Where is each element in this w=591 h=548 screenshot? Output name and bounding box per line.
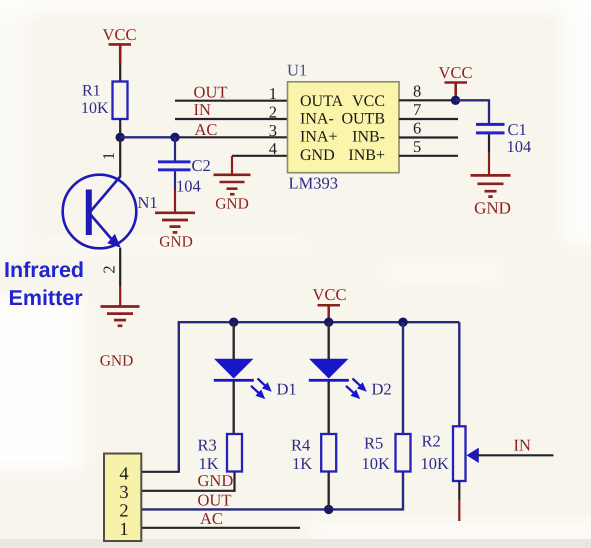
pin number 7 of U1	[413, 100, 421, 119]
power flag VCC net label (bottom)	[313, 285, 347, 304]
potentiometer R2 wiper arrow	[467, 448, 479, 463]
svg-text:GND: GND	[100, 353, 134, 370]
wire IN net to U1 pin 2	[175, 118, 288, 120]
svg-text:R3: R3	[198, 435, 217, 454]
svg-text:7: 7	[413, 100, 421, 119]
ground symbol below C1	[471, 175, 511, 196]
wire R3 bottom to connector pin 3	[141, 472, 235, 491]
wire AC net from C2 node to U1 pin 3	[175, 136, 288, 138]
junction node at C2	[170, 133, 179, 142]
connector pin number 1	[119, 520, 128, 540]
wire AC net from node to C2 node	[120, 136, 175, 138]
wire bus to R5 top	[402, 322, 404, 434]
svg-text:OUTA: OUTA	[300, 93, 344, 110]
power flag VCC bar symbol (right of U1)	[445, 83, 468, 101]
pin number 1 of U1	[269, 84, 277, 103]
label R5	[364, 433, 383, 452]
junction node bus at D1	[229, 318, 238, 327]
svg-text:AC: AC	[195, 120, 218, 139]
svg-text:6: 6	[413, 118, 421, 137]
svg-text:OUT: OUT	[198, 491, 232, 510]
label GND (lower left)	[100, 353, 134, 370]
pin name GND	[300, 147, 335, 164]
svg-text:GND: GND	[300, 147, 335, 164]
pin number 5 of U1	[413, 137, 421, 156]
wire OUT net: connector pin 2 to R4 and R5 bottom	[141, 472, 403, 510]
svg-text:Infrared: Infrared	[4, 258, 84, 282]
wire R1 bottom to node	[119, 119, 121, 137]
junction node at R1 / transistor / AC line	[116, 133, 125, 142]
LED D2 emission arrows	[343, 375, 369, 402]
resistor R3	[227, 434, 242, 472]
wire U1 pin 8 to VCC node	[399, 99, 456, 101]
svg-text:2: 2	[99, 265, 118, 273]
label D1	[277, 379, 297, 398]
svg-text:R5: R5	[364, 433, 383, 452]
svg-text:OUTB: OUTB	[341, 111, 385, 128]
svg-text:VCC: VCC	[352, 93, 385, 110]
power flag VCC net label (top left)	[103, 25, 137, 44]
svg-text:VCC: VCC	[439, 63, 473, 82]
label C1 value 104	[507, 137, 532, 156]
pin number 2 of U1	[269, 102, 277, 121]
label U1	[287, 61, 307, 80]
wire U1 pin 6 (open)	[399, 136, 458, 138]
label R3 value 1K	[199, 454, 219, 473]
junction node bus at VCC / D2	[324, 318, 333, 327]
connector pin number 2	[119, 502, 128, 522]
svg-text:1: 1	[99, 152, 118, 160]
label IN net	[194, 100, 211, 119]
wire VCC bus horizontal	[178, 321, 460, 323]
op-amp U1 body (LM393)	[288, 82, 400, 173]
label R2	[422, 431, 441, 450]
wire transistor emitter to ground	[119, 248, 121, 306]
resistor R4	[321, 434, 336, 472]
svg-text:1: 1	[269, 84, 277, 103]
svg-text:1K: 1K	[292, 454, 312, 473]
connector pin number 4	[119, 465, 128, 485]
wire D1 cathode to R3	[232, 382, 234, 435]
pin number 4 of U1	[269, 139, 277, 158]
LED D1 emission arrows	[248, 375, 274, 402]
wire IN net to R2 wiper	[478, 454, 554, 456]
wire D2 cathode to R4	[328, 382, 330, 435]
svg-text:C2: C2	[192, 156, 211, 175]
svg-text:VCC: VCC	[103, 25, 137, 44]
label Infrared Emitter	[4, 258, 84, 310]
svg-text:VCC: VCC	[313, 285, 347, 304]
pin name OUTB	[341, 111, 385, 128]
pin number 3 of U1	[269, 121, 277, 140]
wire U1 pin 7 (open)	[399, 118, 458, 120]
svg-text:8: 8	[413, 82, 421, 101]
wire VCC node to C1 top	[456, 100, 490, 123]
power flag VCC bar symbol (bottom)	[318, 305, 341, 321]
junction node bus at R5	[398, 318, 407, 327]
label R4 value 1K	[292, 454, 312, 473]
pin name OUTA	[300, 93, 344, 110]
label C2	[192, 156, 211, 175]
svg-text:5: 5	[413, 137, 421, 156]
label C1	[508, 120, 527, 139]
wire C2 top lead	[174, 137, 176, 160]
LED D2	[309, 359, 349, 382]
label OUT net (connector pin 2)	[198, 491, 232, 510]
label R2 value 10K	[421, 454, 450, 473]
wire OUT net to U1 pin 1	[175, 100, 288, 102]
wire bus to D1 anode	[232, 322, 234, 359]
wire VCC to R1 top	[119, 63, 121, 82]
svg-text:C1: C1	[508, 120, 527, 139]
svg-text:INB-: INB-	[352, 129, 385, 146]
wire C1 bottom lead	[488, 134, 490, 174]
svg-text:INA-: INA-	[300, 111, 334, 128]
label GND at U1 pin 4	[215, 196, 249, 213]
ground symbol below transistor N1	[101, 307, 140, 326]
label OUT net	[194, 83, 228, 102]
resistor R1	[113, 82, 128, 120]
label R4	[291, 435, 310, 454]
label C2 value 104	[176, 177, 201, 196]
svg-text:10K: 10K	[362, 454, 391, 473]
svg-text:GND: GND	[474, 199, 511, 218]
potentiometer R2	[453, 426, 466, 481]
junction node at U1 pin 8 / VCC / C1	[451, 96, 460, 105]
svg-text:IN: IN	[194, 100, 211, 119]
svg-text:3: 3	[119, 483, 128, 503]
svg-text:N1: N1	[138, 193, 158, 212]
connector J1 body	[104, 454, 141, 542]
label R1 value 10K	[81, 100, 109, 117]
svg-text:3: 3	[269, 121, 277, 140]
wire VCC bus right drop to R2	[458, 322, 460, 426]
pin number 1 of N1 (rotated)	[99, 152, 118, 160]
svg-text:R1: R1	[82, 83, 101, 100]
svg-text:Emitter: Emitter	[9, 286, 84, 310]
label N1	[138, 193, 158, 212]
label AC net	[195, 120, 218, 139]
label IN net	[514, 436, 531, 455]
label R3	[198, 435, 217, 454]
wire bus to D2 anode	[328, 322, 330, 359]
svg-text:GND: GND	[159, 234, 193, 251]
label R1	[82, 83, 101, 100]
pin name INA+	[300, 129, 337, 146]
svg-text:LM393: LM393	[289, 173, 339, 192]
wire VCC bus left drop to connector pin 4	[141, 322, 180, 472]
capacitor C2	[158, 160, 191, 171]
wire R2 bottom lead	[458, 481, 460, 521]
LED D1	[214, 359, 254, 382]
svg-text:D2: D2	[372, 379, 392, 398]
label GND below C2	[159, 234, 193, 251]
svg-text:2: 2	[119, 502, 128, 522]
svg-text:GND: GND	[215, 196, 249, 213]
svg-text:10K: 10K	[421, 454, 450, 473]
transistor N1 (phototransistor)	[63, 175, 137, 249]
svg-text:INA+: INA+	[300, 129, 337, 146]
pin number 8 of U1	[413, 82, 421, 101]
capacitor C1	[476, 123, 505, 134]
resistor R5	[396, 434, 411, 472]
label D2	[372, 379, 392, 398]
pin name VCC	[352, 93, 385, 110]
power flag VCC bar symbol (top left)	[109, 44, 132, 63]
power flag VCC net label (right of U1)	[439, 63, 473, 82]
pin name INB-	[352, 129, 385, 146]
wire C2 bottom lead	[174, 171, 176, 211]
svg-text:R2: R2	[422, 431, 441, 450]
wire U1 pin 5 (open)	[399, 155, 458, 157]
svg-text:104: 104	[176, 177, 201, 196]
svg-text:4: 4	[119, 465, 128, 485]
svg-text:10K: 10K	[81, 100, 109, 117]
svg-text:IN: IN	[514, 436, 531, 455]
wire R4 bottom to OUT line	[328, 472, 330, 510]
pin number 2 of N1 (rotated)	[99, 265, 118, 273]
svg-text:1K: 1K	[199, 454, 219, 473]
wire AC net from connector pin 1	[141, 527, 300, 529]
label GND net (connector pin 3)	[198, 471, 234, 490]
svg-text:AC: AC	[200, 509, 223, 528]
pin number 6 of U1	[413, 118, 421, 137]
svg-text:U1: U1	[287, 61, 307, 80]
wire node to transistor collector	[119, 137, 121, 177]
ground symbol below C2	[155, 213, 195, 233]
svg-text:2: 2	[269, 102, 277, 121]
label GND below C1	[474, 199, 511, 218]
ground symbol at U1 pin 4	[214, 175, 251, 194]
label AC net (connector pin 1)	[200, 509, 223, 528]
junction node OUT line at R4	[324, 505, 333, 514]
connector pin number 3	[119, 483, 128, 503]
svg-text:GND: GND	[198, 471, 234, 490]
svg-text:OUT: OUT	[194, 83, 228, 102]
svg-text:104: 104	[507, 137, 532, 156]
svg-text:D1: D1	[277, 379, 297, 398]
svg-text:R4: R4	[291, 435, 310, 454]
svg-text:INB+: INB+	[348, 147, 385, 164]
wire U1 pin 4 to ground hook	[232, 156, 288, 174]
pin name INA-	[300, 111, 334, 128]
label R5 value 10K	[362, 454, 391, 473]
svg-text:1: 1	[119, 520, 128, 540]
label LM393	[289, 173, 339, 192]
pin name INB+	[348, 147, 385, 164]
